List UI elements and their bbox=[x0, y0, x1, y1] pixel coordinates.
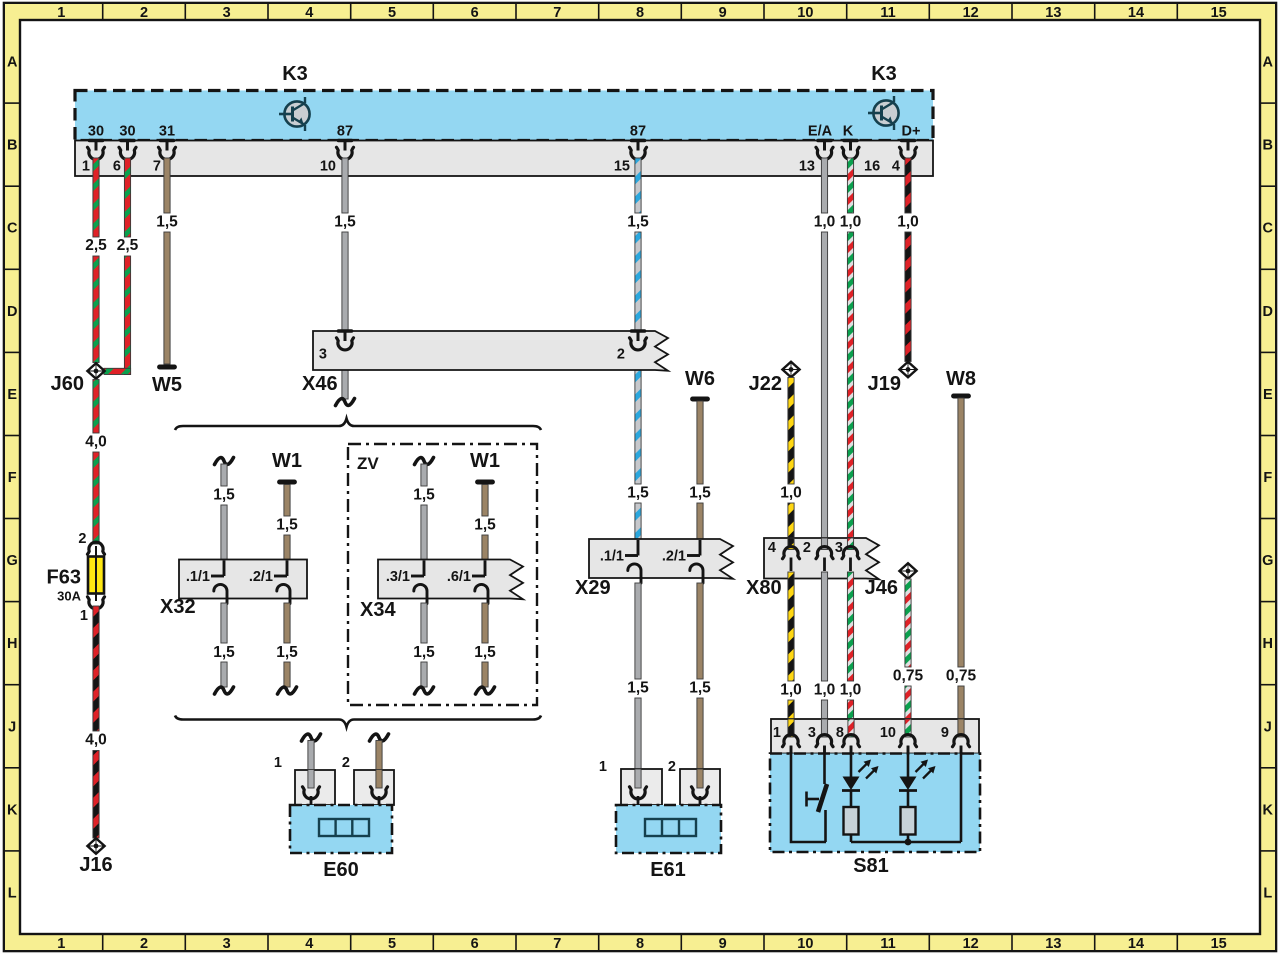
label K3 left bbox=[282, 63, 308, 85]
svg-text:1,5: 1,5 bbox=[156, 214, 178, 231]
wire red/green 2.5 from pin 1 to J60 bbox=[85, 158, 107, 363]
K3 pin 6 bbox=[113, 141, 136, 175]
brace top of splice group bbox=[175, 419, 541, 431]
wire black/red 4.0 from F63 to J16 bbox=[85, 606, 107, 838]
junction J46 bbox=[865, 563, 917, 599]
svg-text:10: 10 bbox=[797, 936, 813, 952]
svg-text:15: 15 bbox=[1211, 5, 1227, 21]
svg-text:8: 8 bbox=[636, 936, 644, 952]
svg-text:K: K bbox=[843, 124, 854, 140]
terminal label K bbox=[843, 124, 854, 140]
svg-text:1,5: 1,5 bbox=[627, 214, 649, 231]
svg-text:87: 87 bbox=[337, 124, 353, 140]
heated washer jet E61 bbox=[616, 805, 721, 881]
K3 pin 4 bbox=[892, 141, 917, 175]
svg-text:W8: W8 bbox=[946, 368, 976, 390]
wire gray below X46 pin 3 bbox=[336, 349, 355, 406]
wire green/red 1.0 from pin 16 bbox=[840, 158, 862, 538]
svg-text:1,0: 1,0 bbox=[780, 485, 802, 502]
svg-text:L: L bbox=[1263, 885, 1272, 901]
E61 pin housings bbox=[599, 759, 720, 805]
X46 pin 2 bbox=[630, 331, 647, 350]
S81 pin 9 bbox=[953, 735, 970, 754]
svg-text:1: 1 bbox=[773, 725, 781, 741]
svg-text:H: H bbox=[7, 636, 17, 652]
svg-text:S81: S81 bbox=[853, 855, 889, 877]
svg-text:2: 2 bbox=[668, 759, 676, 775]
S81 resistor 1 bbox=[844, 807, 859, 842]
X80 pin 4 bbox=[783, 547, 800, 571]
svg-text:E/A: E/A bbox=[808, 124, 833, 140]
svg-text:H: H bbox=[1263, 636, 1273, 652]
S81 resistor 2 bbox=[901, 807, 916, 842]
junction J19 bbox=[868, 362, 917, 395]
svg-text:13: 13 bbox=[799, 159, 815, 175]
wire gray below X34 .3/1 bbox=[413, 603, 435, 694]
svg-text:30: 30 bbox=[119, 124, 135, 140]
svg-text:31: 31 bbox=[159, 124, 175, 140]
ground W1 left bbox=[272, 450, 302, 482]
brace bottom of splice group bbox=[175, 716, 541, 728]
wire brown above X34 pin .6/1 bbox=[474, 485, 496, 560]
svg-text:1,5: 1,5 bbox=[213, 644, 235, 661]
svg-text:9: 9 bbox=[941, 725, 949, 741]
svg-text:C: C bbox=[7, 221, 18, 237]
wire brown 1.5 from pin 7 to W5 bbox=[156, 158, 178, 364]
terminal label 30 bbox=[119, 124, 135, 140]
svg-text:12: 12 bbox=[963, 5, 979, 21]
ground W6 bbox=[685, 368, 715, 399]
wire brown below X34 .6/1 bbox=[474, 603, 496, 694]
svg-text:1,0: 1,0 bbox=[814, 682, 836, 699]
svg-text:2: 2 bbox=[803, 540, 811, 556]
svg-text:C: C bbox=[1263, 221, 1274, 237]
svg-text:L: L bbox=[8, 885, 17, 901]
svg-text:1,5: 1,5 bbox=[627, 485, 649, 502]
wire blue/white 1.5 from pin 15 to X46 bbox=[627, 158, 649, 331]
S81 pin 1 bbox=[783, 735, 800, 754]
wire brown 0.75 W8 to S81 bbox=[946, 398, 977, 719]
svg-text:1,0: 1,0 bbox=[840, 214, 862, 231]
K3 pin 16 bbox=[842, 141, 880, 175]
wire brown above X32 pin .2/1 bbox=[276, 485, 298, 560]
svg-text:1,5: 1,5 bbox=[413, 487, 435, 504]
ground W5 bbox=[152, 367, 182, 396]
wire black/yellow below X80 to S81 bbox=[780, 572, 802, 719]
svg-text:2: 2 bbox=[342, 755, 350, 771]
svg-text:J: J bbox=[8, 719, 16, 735]
svg-text:8: 8 bbox=[636, 5, 644, 21]
svg-text:.1/1: .1/1 bbox=[600, 549, 624, 565]
svg-text:1,0: 1,0 bbox=[840, 682, 862, 699]
wire brown below X29 .2/1 bbox=[689, 583, 711, 769]
svg-text:4: 4 bbox=[305, 5, 313, 21]
K3 pin 10 bbox=[320, 141, 354, 175]
ground W1 right bbox=[470, 450, 500, 482]
svg-text:X32: X32 bbox=[160, 596, 196, 618]
connector X29 bbox=[575, 539, 733, 599]
wire gray 1.5 from pin 10 to X46 bbox=[334, 158, 356, 331]
K3 pin 13 bbox=[799, 141, 833, 175]
wire green/red 0.75 J46 to S81 bbox=[893, 579, 924, 719]
svg-text:X80: X80 bbox=[746, 577, 782, 599]
svg-text:X34: X34 bbox=[360, 599, 396, 621]
svg-text:10: 10 bbox=[880, 725, 896, 741]
svg-text:4,0: 4,0 bbox=[85, 434, 107, 451]
svg-text:F: F bbox=[1263, 470, 1272, 486]
wire brown into E61 pin 2 bbox=[697, 769, 703, 788]
relay module K3 box bbox=[75, 91, 933, 141]
wire gray stub to E60 pin 1 bbox=[302, 734, 321, 770]
svg-text:8: 8 bbox=[836, 725, 844, 741]
terminal label 87 bbox=[630, 124, 646, 140]
connector X80 bbox=[746, 538, 879, 599]
svg-text:9: 9 bbox=[719, 936, 727, 952]
wire brown stub to E60 pin 2 bbox=[370, 734, 389, 770]
S81 pin 3 bbox=[816, 735, 833, 754]
svg-text:K: K bbox=[1263, 802, 1274, 818]
svg-text:13: 13 bbox=[1045, 936, 1061, 952]
svg-text:5: 5 bbox=[388, 5, 396, 21]
svg-text:W5: W5 bbox=[152, 374, 182, 396]
svg-text:W6: W6 bbox=[685, 368, 715, 390]
S81 pin bar bbox=[771, 719, 979, 754]
svg-text:1: 1 bbox=[599, 759, 607, 775]
K3 pin 7 bbox=[153, 141, 176, 175]
wire gray below X32 .1/1 bbox=[213, 603, 235, 694]
svg-text:3: 3 bbox=[223, 5, 231, 21]
svg-text:.3/1: .3/1 bbox=[386, 569, 410, 585]
svg-text:1,5: 1,5 bbox=[474, 644, 496, 661]
transistor symbol right in K3 bbox=[868, 96, 899, 130]
svg-text:1,5: 1,5 bbox=[276, 517, 298, 534]
svg-text:1,5: 1,5 bbox=[413, 644, 435, 661]
svg-text:X46: X46 bbox=[302, 373, 338, 395]
svg-text:11: 11 bbox=[880, 5, 895, 21]
svg-text:G: G bbox=[7, 553, 18, 569]
junction J60 bbox=[51, 363, 105, 395]
wire red/green 4.0 from J60 to F63 bbox=[85, 380, 107, 545]
E61 pin 2 cup bbox=[692, 787, 709, 805]
S81 LED 1 bbox=[842, 746, 879, 807]
bus bar of K3 bbox=[75, 141, 933, 177]
svg-text:0,75: 0,75 bbox=[946, 668, 977, 685]
svg-text:1,5: 1,5 bbox=[213, 487, 235, 504]
wire gray 1.0 from pin 13 bbox=[814, 158, 836, 538]
connector X34 bbox=[360, 560, 523, 622]
K3 pin 1 bbox=[82, 141, 105, 175]
svg-text:B: B bbox=[7, 138, 17, 154]
connector X32 bbox=[160, 560, 307, 619]
transistor symbol left in K3 bbox=[279, 97, 310, 131]
svg-text:1,5: 1,5 bbox=[627, 680, 649, 697]
E60 pin housings bbox=[274, 755, 394, 805]
X32 pin .1/1 bbox=[211, 561, 227, 604]
label K3 right bbox=[871, 63, 897, 85]
svg-text:4,0: 4,0 bbox=[85, 732, 107, 749]
svg-text:J: J bbox=[1264, 719, 1272, 735]
svg-text:E: E bbox=[7, 387, 17, 403]
wire green/red below X80 to S81 bbox=[840, 572, 862, 719]
S81 LED 2 bbox=[899, 746, 936, 807]
svg-text:16: 16 bbox=[864, 159, 880, 175]
wire blue/white 1.5 X46 to X29 bbox=[627, 349, 649, 540]
svg-text:4: 4 bbox=[305, 936, 313, 952]
wire red/green 2.5 from pin 6 bbox=[117, 158, 139, 375]
svg-text:4: 4 bbox=[768, 540, 776, 556]
svg-text:2,5: 2,5 bbox=[85, 237, 107, 254]
svg-text:X29: X29 bbox=[575, 577, 611, 599]
svg-text:.2/1: .2/1 bbox=[662, 549, 686, 565]
svg-text:9: 9 bbox=[719, 5, 727, 21]
svg-text:1: 1 bbox=[80, 608, 88, 624]
svg-text:1,5: 1,5 bbox=[276, 644, 298, 661]
svg-text:D: D bbox=[1263, 304, 1273, 320]
svg-text:30A: 30A bbox=[57, 589, 81, 604]
svg-text:F63: F63 bbox=[47, 567, 81, 589]
svg-text:1,0: 1,0 bbox=[780, 682, 802, 699]
X34 pin .6/1 bbox=[472, 561, 488, 604]
terminal label 87 bbox=[337, 124, 353, 140]
svg-text:10: 10 bbox=[797, 5, 813, 21]
svg-text:1,5: 1,5 bbox=[689, 485, 711, 502]
svg-text:.1/1: .1/1 bbox=[186, 569, 210, 585]
terminal label 30 bbox=[88, 124, 104, 140]
svg-text:7: 7 bbox=[153, 159, 161, 175]
X46 pin 3 bbox=[337, 331, 354, 350]
fuse F63 bbox=[47, 531, 105, 624]
svg-text:K3: K3 bbox=[871, 63, 897, 85]
svg-text:7: 7 bbox=[553, 5, 561, 21]
svg-text:15: 15 bbox=[614, 159, 630, 175]
svg-text:2: 2 bbox=[617, 347, 625, 363]
E61 pin 1 cup bbox=[630, 787, 647, 805]
wire gray above X32 pin .1/1 bbox=[213, 458, 235, 560]
svg-text:1: 1 bbox=[82, 159, 90, 175]
svg-text:7: 7 bbox=[553, 936, 561, 952]
S81 internal wire pin 9 bbox=[851, 746, 961, 842]
connector X46 bbox=[302, 331, 668, 395]
svg-text:W1: W1 bbox=[470, 450, 500, 472]
terminal label 31 bbox=[159, 124, 175, 140]
svg-text:D: D bbox=[7, 304, 17, 320]
svg-text:1,5: 1,5 bbox=[474, 517, 496, 534]
svg-text:F: F bbox=[8, 470, 17, 486]
wire gray below X80 to S81 bbox=[814, 572, 836, 719]
X32 pin .2/1 bbox=[274, 561, 290, 604]
svg-text:14: 14 bbox=[1128, 936, 1144, 952]
svg-text:K: K bbox=[7, 802, 18, 818]
E60 pin 1 cup bbox=[303, 787, 320, 805]
svg-text:3: 3 bbox=[808, 725, 816, 741]
terminal label D+ bbox=[902, 124, 921, 140]
svg-text:ZV: ZV bbox=[357, 454, 379, 473]
X29 pin .1/1 bbox=[625, 540, 641, 583]
svg-text:B: B bbox=[1263, 138, 1273, 154]
svg-text:12: 12 bbox=[963, 936, 979, 952]
svg-text:13: 13 bbox=[1045, 5, 1061, 21]
svg-text:10: 10 bbox=[320, 159, 336, 175]
svg-text:A: A bbox=[1263, 55, 1274, 71]
svg-text:1,0: 1,0 bbox=[897, 214, 919, 231]
X80 pin 3 bbox=[842, 547, 859, 571]
wire black/yellow 1.0 J22 to X80 bbox=[780, 378, 802, 539]
svg-text:W1: W1 bbox=[272, 450, 302, 472]
svg-text:5: 5 bbox=[388, 936, 396, 952]
ground W8 bbox=[946, 368, 976, 396]
wire gray below X29 .1/1 bbox=[627, 583, 649, 769]
svg-text:1: 1 bbox=[57, 936, 65, 952]
svg-text:1,5: 1,5 bbox=[689, 680, 711, 697]
junction J16 bbox=[79, 838, 112, 876]
wire black/red 1.0 from pin 4 to J19 bbox=[897, 158, 919, 362]
svg-text:E: E bbox=[1263, 387, 1273, 403]
svg-text:3: 3 bbox=[223, 936, 231, 952]
svg-text:2,5: 2,5 bbox=[117, 237, 139, 254]
heated washer jet E60 bbox=[290, 805, 392, 881]
svg-text:3: 3 bbox=[319, 347, 327, 363]
svg-text:G: G bbox=[1262, 553, 1273, 569]
svg-text:1: 1 bbox=[57, 5, 65, 21]
terminal label E/A bbox=[808, 124, 833, 140]
svg-text:4: 4 bbox=[892, 159, 900, 175]
svg-text:E60: E60 bbox=[323, 859, 359, 881]
svg-text:.2/1: .2/1 bbox=[249, 569, 273, 585]
S81 internal wire pin1 bbox=[791, 746, 826, 842]
svg-text:2: 2 bbox=[78, 531, 86, 547]
svg-text:J19: J19 bbox=[868, 373, 901, 395]
svg-text:6: 6 bbox=[471, 936, 479, 952]
svg-text:1,0: 1,0 bbox=[814, 214, 836, 231]
wire gray into E61 pin 1 bbox=[635, 769, 641, 788]
ZV dash-dot box bbox=[348, 444, 537, 705]
svg-text:1,5: 1,5 bbox=[334, 214, 356, 231]
svg-text:15: 15 bbox=[1211, 936, 1227, 952]
svg-text:2: 2 bbox=[140, 936, 148, 952]
X34 pin .3/1 bbox=[411, 561, 427, 604]
X29 pin .2/1 bbox=[687, 540, 703, 583]
wire brown 1.5 W6 to X29 bbox=[689, 401, 711, 539]
svg-text:J60: J60 bbox=[51, 373, 84, 395]
svg-text:14: 14 bbox=[1128, 5, 1144, 21]
E60 pin 2 cup bbox=[371, 787, 388, 805]
svg-text:A: A bbox=[7, 55, 18, 71]
S81 body box bbox=[770, 754, 980, 878]
svg-text:30: 30 bbox=[88, 124, 104, 140]
junction J22 bbox=[749, 362, 800, 395]
svg-text:11: 11 bbox=[880, 936, 895, 952]
svg-text:J16: J16 bbox=[79, 854, 112, 876]
svg-text:0,75: 0,75 bbox=[893, 668, 924, 685]
S81 junction dot bbox=[905, 839, 912, 846]
svg-text:J22: J22 bbox=[749, 373, 782, 395]
S81 pin 8 bbox=[843, 735, 860, 754]
svg-text:2: 2 bbox=[140, 5, 148, 21]
svg-text:6: 6 bbox=[113, 159, 121, 175]
X80 pin 2 bbox=[816, 547, 833, 571]
svg-text:D+: D+ bbox=[902, 124, 921, 140]
svg-text:E61: E61 bbox=[650, 859, 686, 881]
wire gray above X34 pin .3/1 bbox=[413, 458, 435, 560]
svg-text:K3: K3 bbox=[282, 63, 308, 85]
svg-text:1: 1 bbox=[274, 755, 282, 771]
svg-text:87: 87 bbox=[630, 124, 646, 140]
svg-text:.6/1: .6/1 bbox=[447, 569, 471, 585]
S81 pin 10 bbox=[900, 735, 917, 754]
S81 switch bbox=[807, 746, 828, 842]
svg-text:J46: J46 bbox=[865, 577, 898, 599]
wire brown below X32 .2/1 bbox=[276, 603, 298, 694]
svg-text:6: 6 bbox=[471, 5, 479, 21]
K3 pin 15 bbox=[614, 141, 647, 175]
wire segment to J60 junction bbox=[104, 368, 131, 374]
